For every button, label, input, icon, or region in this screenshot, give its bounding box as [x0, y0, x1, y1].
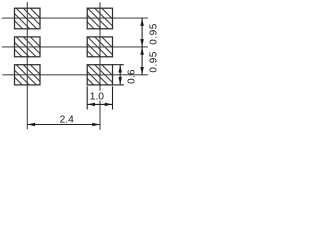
pad 1 (left column, row 1) outline: [15, 8, 41, 29]
pad 6 (right column, row 3) hatch: [66, 47, 161, 110]
dimension 2.4 arrow left: [28, 123, 35, 127]
dimension 1.0 label: [89, 91, 106, 101]
dimension 2.4 arrow right: [92, 123, 100, 127]
dimension 0.6 arrow up: [118, 65, 122, 73]
svg-text:0.6: 0.6: [127, 69, 138, 84]
dimension 0.6 arrow down: [118, 77, 122, 85]
svg-text:2.4: 2.4: [60, 115, 74, 126]
pad 3 (left column, row 3) hatch: [0, 47, 90, 110]
dimension 0.95 line (rows 1-2): [141, 18, 143, 47]
pad 4 (right column, row 1) outline: [87, 8, 112, 29]
dimension 0.95 line (rows 2-3): [141, 47, 143, 75]
pad 2 (left column, row 2) outline: [15, 37, 41, 57]
dimension 1.0 extension line left (pad 6 left edge): [86, 86, 88, 109]
pad 3 (left column, row 3) outline: [15, 65, 41, 85]
centerline row 3 (horizontal): [2, 74, 148, 76]
centerline row 2 (horizontal): [2, 46, 148, 48]
svg-text:1.0: 1.0: [90, 92, 104, 103]
pad 5 (right column, row 2) outline: [87, 37, 112, 57]
dimension 0.95 arrow up at row 1: [140, 18, 144, 26]
pad 1 (left column, row 1) hatch: [0, 0, 90, 53]
dimension 1.0 line: [87, 103, 112, 105]
pad 2 (left column, row 2) hatch: [0, 19, 90, 82]
dimension 1.0 arrow right: [105, 103, 113, 107]
dimension 0.95 arrow down at row 2: [140, 39, 144, 47]
dimension 0.6 extension line bottom (pad 6 bottom edge): [113, 84, 124, 86]
centerline left column (vertical): [26, 2, 28, 129]
svg-text:0.95: 0.95: [148, 23, 158, 44]
svg-text:0.95: 0.95: [148, 51, 158, 72]
dimension 0.95 arrow up at row 2: [140, 47, 144, 55]
dimension 1.0 arrow left: [88, 103, 96, 107]
dimension 1.0 extension line right (pad 6 right edge): [112, 86, 114, 109]
pad 4 (right column, row 1) hatch: [66, 0, 161, 53]
dimension 0.6 line: [119, 65, 121, 85]
dimension 2.4 line: [27, 124, 100, 126]
dimension 0.6 extension line top (pad 6 top edge): [113, 64, 124, 66]
centerline row 1 (horizontal): [2, 17, 148, 19]
centerline right column (vertical): [99, 2, 101, 130]
pad 6 (right column, row 3) outline: [87, 65, 112, 85]
dimension 0.95 arrow down at row 3: [140, 67, 144, 75]
pad 5 (right column, row 2) hatch: [66, 19, 161, 82]
